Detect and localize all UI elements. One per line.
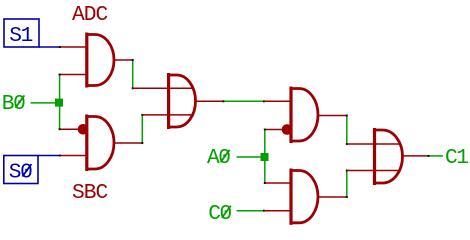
corner pixel — [264, 129, 266, 131]
and-gate U6 — [375, 128, 403, 185]
lead U4 output (red) — [317, 115, 347, 117]
lead U3 input A (red) — [133, 87, 192, 89]
wire B0 (green) — [31, 102, 57, 104]
svg-text:S0: S0 — [9, 161, 33, 185]
lead U5 input A (red) — [265, 182, 291, 184]
corner pixel — [264, 182, 266, 184]
slash of zero in B0 — [15, 95, 24, 107]
junction square B0 — [55, 99, 63, 107]
inverted input bubble U2 — [78, 124, 89, 135]
and-gate U3 — [169, 73, 196, 129]
and-gate U1 ADC — [87, 33, 114, 88]
corner pixel — [59, 74, 61, 76]
corner pixel — [59, 128, 61, 130]
corner pixel — [346, 115, 348, 117]
svg-text:SBC: SBC — [72, 181, 108, 205]
lead U1 input B (red) — [60, 74, 87, 76]
svg-text:A0: A0 — [207, 146, 231, 170]
wire C0 (green) — [237, 210, 265, 212]
wire vertical U5.out to U6.B (green) — [346, 171, 348, 198]
corner pixel — [132, 87, 134, 89]
lead U6 output (red) — [402, 155, 429, 157]
slash of zero in A0 — [221, 150, 230, 162]
wire C1 (green) — [429, 155, 444, 157]
junction pixel — [222, 100, 224, 102]
junction pixel — [59, 46, 61, 48]
junction pixel — [428, 155, 430, 157]
corner pixel — [132, 59, 134, 61]
and-gate U5 — [291, 169, 318, 225]
lead U6 input A (red) — [347, 143, 400, 145]
svg-text:S1: S1 — [9, 24, 33, 48]
wire vertical A0 net (green) — [264, 130, 266, 184]
port box S1 — [4, 19, 39, 47]
wire A0 (green) — [237, 156, 263, 158]
corner pixel — [346, 196, 348, 198]
lead U3 output (red) — [195, 100, 224, 102]
corner pixel — [141, 142, 143, 144]
inverted input bubble U4 — [282, 124, 293, 135]
slash of zero in S0 — [22, 164, 31, 176]
corner pixel — [346, 170, 348, 172]
lead U4 input B (red) — [265, 129, 283, 131]
junction pixel — [263, 210, 265, 212]
junction pixel — [59, 155, 61, 157]
slash of zero in C0 — [222, 206, 231, 218]
lead U5 input B (red) — [264, 210, 291, 212]
wire vertical U1.out to U3.A (green) — [132, 60, 134, 88]
lead U1 output (red) — [113, 59, 133, 61]
wire vertical U2.out to U3.B (green) — [141, 115, 143, 143]
and-gate U4 — [291, 87, 318, 144]
svg-text:B0: B0 — [2, 92, 26, 116]
corner pixel — [141, 114, 143, 116]
wire vertical U4.out to U6.A (green) — [346, 116, 348, 145]
wire vertical B0 net (green) — [59, 75, 61, 130]
lead U6 input B (red) — [347, 170, 399, 172]
wire S0 to U2 (blue) — [39, 155, 61, 157]
lead U5 output (red) — [317, 196, 347, 198]
wire S1 to U1 (blue) — [39, 46, 60, 48]
port box S0 — [4, 156, 38, 184]
wire U3.out to U4.A (green) — [223, 100, 264, 102]
svg-text:ADC: ADC — [72, 3, 108, 27]
lead U2 input A (red) — [60, 128, 80, 130]
svg-text:C0: C0 — [208, 202, 232, 226]
lead U1 input A (red) — [60, 46, 87, 48]
lead U2 output (red) — [113, 142, 142, 144]
and-gate U2 SBC — [87, 115, 114, 172]
svg-text:C1: C1 — [445, 146, 469, 170]
lead U4 input A (red) — [264, 100, 291, 102]
junction square A0 — [261, 153, 269, 161]
junction pixel — [263, 100, 265, 102]
lead U3 input B (red) — [142, 114, 191, 116]
corner pixel — [346, 143, 348, 145]
lead U2 input B (red) — [60, 155, 87, 157]
